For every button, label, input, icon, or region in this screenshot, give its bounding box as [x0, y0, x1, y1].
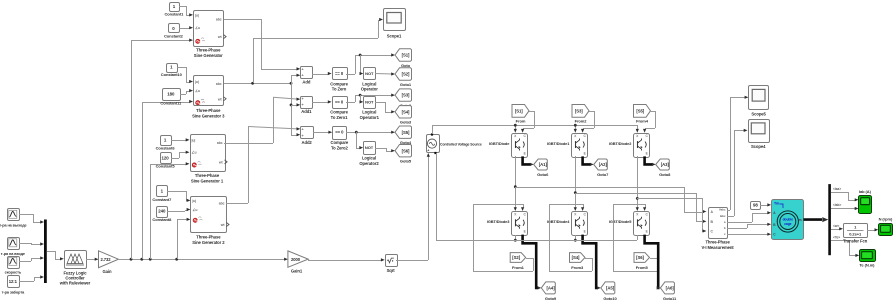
green scope Te — [860, 250, 876, 262]
svg-text:<isa>: <isa> — [833, 187, 841, 191]
asynchronous machine double cage — [772, 200, 804, 240]
svg-text:[A2]: [A2] — [599, 162, 608, 167]
wire Constant5 to G1b — [171, 158, 179, 160]
svg-text:|u|: |u| — [192, 138, 196, 142]
svg-text:|u|: |u| — [192, 199, 196, 203]
svg-text:E: E — [646, 230, 648, 234]
svg-text:IGBT/Diode2: IGBT/Diode2 — [609, 141, 632, 146]
thick wire IGBT3 to goto A4 — [523, 235, 539, 288]
wire from tag to IGBT1 gate — [589, 111, 594, 113]
svg-text:Operator2: Operator2 — [359, 161, 379, 166]
wire Constant1 to G1 — [179, 6, 186, 8]
mux Mux — [44, 220, 47, 284]
phase column vertical 3 — [637, 156, 639, 208]
svg-text:т-ра заборта: т-ра заборта — [2, 290, 25, 294]
wire DC rail stub to IGBT1 collector — [575, 125, 577, 130]
svg-text:т-ра на входе: т-ра на входе — [1, 252, 25, 256]
constant Constant6 — [161, 136, 172, 146]
svg-text:Constant10: Constant10 — [161, 72, 183, 77]
three-phase VI measurement block — [709, 208, 728, 239]
scope Scope5 — [749, 86, 769, 110]
svg-text:[A4]: [A4] — [547, 286, 556, 291]
svg-text:∠u: ∠u — [195, 26, 200, 30]
svg-text:Gain1: Gain1 — [291, 269, 303, 274]
svg-text:Sine Generator: Sine Generator — [194, 53, 223, 58]
from tag S1 — [512, 105, 529, 118]
bus out isa wire — [831, 192, 848, 194]
transfer fcn block — [844, 224, 868, 238]
svg-text:Three-Phase: Three-Phase — [195, 173, 220, 178]
svg-text:Te (N.m): Te (N.m) — [859, 263, 875, 268]
goto tag S4 — [395, 106, 412, 118]
goto tag A6 — [660, 282, 674, 294]
svg-text:Scope4: Scope4 — [751, 144, 766, 149]
wire Constant2 to G1 — [179, 28, 186, 30]
wire carrier vertical to adders — [291, 75, 293, 135]
goto tag S1 — [395, 49, 412, 61]
compare to zero CTZ2 — [333, 127, 347, 140]
svg-text:[S1]: [S1] — [515, 108, 523, 113]
svg-text:[S2]: [S2] — [512, 255, 520, 260]
svg-text:[A6]: [A6] — [666, 286, 675, 291]
wire scope tap to Scope1 — [253, 38, 255, 83]
wire freq to sine generator — [131, 40, 133, 259]
svg-text:Transfer Fcn: Transfer Fcn — [843, 238, 868, 243]
source block т-ра на выходе — [8, 209, 20, 221]
wire src4 to mux — [19, 281, 34, 283]
svg-text:abc: abc — [219, 201, 225, 205]
constant Constant5 — [161, 153, 172, 164]
three-phase sine generator G1 — [194, 11, 224, 47]
wire VI c to machine C — [727, 234, 740, 236]
from tag S6 — [634, 253, 650, 263]
svg-text:From5: From5 — [636, 265, 649, 270]
svg-text:<isb>: <isb> — [833, 203, 841, 207]
svg-text:скорость: скорость — [5, 271, 22, 275]
svg-text:Three-Phase: Three-Phase — [705, 240, 730, 245]
wire DC rail stub to IGBT2 collector — [637, 125, 639, 130]
svg-text:Constant11: Constant11 — [160, 100, 182, 105]
from tag S5 — [634, 105, 651, 118]
wire Tm to machine — [760, 205, 769, 207]
svg-text:2.732: 2.732 — [100, 257, 111, 262]
from tag S3 — [572, 105, 589, 118]
gate loop wire From to IGBT3 — [526, 258, 533, 260]
thick wire machine m to bus selector — [803, 218, 822, 221]
constant Constant7 — [157, 186, 168, 197]
logical operator NOT1 — [364, 97, 376, 109]
svg-text:IGBT/Diode3: IGBT/Diode3 — [487, 219, 510, 224]
goto tag A1 — [534, 159, 548, 170]
junction freq branch 4 — [175, 258, 178, 261]
sqrt block Sqrt — [386, 255, 398, 267]
from tag S4 — [570, 253, 586, 263]
scope Scope4 — [749, 120, 770, 143]
wire G2 abc to Add2 in1 — [226, 203, 248, 205]
three-phase sine generator G1b — [191, 135, 226, 172]
svg-text:Compare: Compare — [330, 110, 348, 115]
wire IGBT4 emitter to DC minus rail — [575, 235, 577, 240]
svg-text:NOT: NOT — [365, 99, 374, 104]
svg-text:Controlled Voltage Source: Controlled Voltage Source — [440, 143, 482, 147]
svg-text:abc: abc — [217, 141, 223, 145]
svg-text:To Zero1: To Zero1 — [331, 115, 348, 120]
svg-text:NOT: NOT — [365, 145, 374, 150]
bus out Te wire — [831, 240, 849, 242]
svg-text:[A5]: [A5] — [606, 286, 615, 291]
svg-text:Three-Phase: Three-Phase — [196, 108, 221, 113]
wire VI b to machine B — [727, 228, 747, 230]
svg-text:IGBT/Diode1: IGBT/Diode1 — [547, 141, 570, 146]
bus selector — [828, 184, 831, 255]
junction freq branch 2 — [140, 258, 143, 261]
igbt block IGBT/Diode3 — [512, 212, 528, 236]
svg-text:Sine Generator 2: Sine Generator 2 — [192, 240, 225, 245]
svg-text:240: 240 — [158, 209, 166, 214]
svg-text:Add2: Add2 — [302, 140, 313, 145]
svg-text:|u|: |u| — [195, 13, 199, 17]
svg-text:From2: From2 — [575, 118, 588, 123]
constant Tm 98 — [751, 202, 761, 210]
svg-text:[S3]: [S3] — [575, 108, 583, 113]
wire Gain1 to Sqrt — [308, 259, 310, 260]
svg-text:N (rpm): N (rpm) — [879, 217, 893, 222]
svg-text:Goto: Goto — [401, 63, 411, 68]
wire Add2 to CTZ2 — [313, 132, 330, 134]
svg-text:[A1]: [A1] — [539, 162, 548, 167]
compare to zero CTZ — [333, 68, 348, 80]
goto tag S5 — [395, 126, 412, 138]
svg-text:Sine Generator 3: Sine Generator 3 — [192, 114, 225, 119]
wire src3 to mux — [19, 261, 31, 263]
svg-text:Sqrt: Sqrt — [387, 268, 396, 273]
three-phase sine generator G3 — [194, 76, 224, 106]
wire Constant7 to G2 — [167, 191, 186, 193]
svg-text:Goto10: Goto10 — [603, 296, 617, 301]
svg-text:with Ruleviewer: with Ruleviewer — [59, 281, 91, 286]
svg-text:Constant6: Constant6 — [156, 146, 176, 151]
svg-text:Operator1: Operator1 — [360, 115, 380, 120]
constant Constant2 — [169, 24, 180, 33]
svg-text:From1: From1 — [512, 265, 525, 270]
wire CTZ out split row1 — [346, 74, 355, 76]
gain Gain 2.732 — [99, 251, 119, 268]
igbt block IGBT/Diode — [512, 134, 528, 158]
svg-text:|u|: |u| — [195, 80, 199, 84]
gate loop wire From to IGBT4 — [585, 258, 592, 260]
junction carrier vertical — [290, 82, 293, 85]
svg-text:Scope1: Scope1 — [387, 33, 402, 38]
svg-text:Constant2: Constant2 — [164, 33, 184, 38]
svg-text:Goto6: Goto6 — [537, 172, 549, 177]
svg-text:Logical: Logical — [362, 110, 376, 115]
from tag S2 — [510, 253, 526, 263]
wire from tag to IGBT gate — [529, 111, 534, 113]
svg-text:Constant1: Constant1 — [164, 12, 184, 17]
wire transfer fcn to N display — [867, 230, 876, 232]
wire NOT1 to S4 — [375, 102, 385, 104]
wire src1 to mux — [19, 214, 33, 216]
phase column vertical 2 — [575, 156, 577, 208]
svg-text:∠u: ∠u — [192, 151, 197, 155]
svg-text:Add1: Add1 — [301, 109, 312, 114]
gate loop wire From to IGBT5 — [650, 258, 657, 260]
junction carrier to Add1 in2 — [290, 104, 293, 107]
svg-text:Goto11: Goto11 — [663, 296, 677, 301]
wire IGBT5 emitter to DC minus rail — [637, 235, 639, 240]
constant Constant8 — [157, 207, 168, 218]
svg-text:NOT: NOT — [365, 71, 374, 76]
wire Constant10 to G3 — [177, 67, 186, 69]
svg-text:Goto3: Goto3 — [400, 120, 412, 125]
constant Constant11 — [163, 89, 181, 101]
wire CVS minus down — [436, 153, 438, 240]
svg-text:IGBT/Diode5: IGBT/Diode5 — [609, 219, 632, 224]
wire VI a to machine A — [727, 222, 752, 224]
goto tag A2 — [594, 159, 608, 170]
svg-text:Gain: Gain — [103, 269, 113, 274]
wire mux to fuzzy controller — [47, 251, 55, 253]
wire fuzzy to gain — [86, 259, 96, 261]
wire from tag to IGBT2 gate — [650, 111, 655, 113]
bus out isb wire — [831, 208, 846, 210]
constant 12:1 — [8, 276, 20, 288]
gain Gain1 2000 — [288, 251, 308, 267]
svg-text:E: E — [584, 230, 586, 234]
three-phase sine generator G2 — [191, 197, 227, 233]
svg-text:Add: Add — [302, 79, 310, 84]
svg-text:∠u: ∠u — [192, 208, 197, 212]
wire Constant6 to G1b — [171, 140, 187, 142]
svg-text:[S1]: [S1] — [402, 53, 410, 58]
svg-text:<Te>: <Te> — [833, 236, 840, 240]
wire gain rail to gain1 — [118, 259, 285, 261]
svg-text:Tm: Tm — [774, 202, 779, 206]
svg-text:[S6]: [S6] — [402, 148, 410, 153]
svg-text:[S4]: [S4] — [402, 109, 410, 114]
svg-text:Goto8: Goto8 — [659, 172, 671, 177]
goto tag A3 — [656, 159, 670, 170]
wire G1 abc to Add in1 — [224, 19, 261, 21]
svg-text:V-I Measurement: V-I Measurement — [702, 245, 735, 250]
fuzzy logic controller with ruleviewer U1 — [65, 251, 87, 269]
svg-text:Constant5: Constant5 — [156, 164, 176, 169]
wire G3 abc carrier line — [224, 83, 291, 85]
logical operator NOT — [364, 68, 376, 80]
junction freq branch 1 — [130, 258, 133, 261]
add block Add — [301, 67, 313, 79]
wire IGBT3 emitter to DC minus rail — [515, 235, 517, 240]
svg-text:cage: cage — [784, 222, 791, 226]
svg-text:[S4]: [S4] — [572, 255, 580, 260]
wire Vabc to Scope5 — [727, 210, 730, 212]
wire NOT to S2 — [375, 73, 392, 76]
svg-text:Operator: Operator — [361, 87, 378, 92]
wire CTZ2 out split row3 — [346, 132, 392, 134]
phase A wire to VI measurement — [515, 187, 684, 189]
svg-text:Goto5: Goto5 — [400, 159, 412, 164]
logical operator NOT2 — [364, 142, 376, 155]
svg-text:[S5]: [S5] — [636, 108, 644, 113]
svg-text:120: 120 — [162, 155, 170, 160]
igbt block IGBT/Diode4 — [572, 212, 588, 236]
wire Add to CTZ — [312, 74, 329, 76]
thick wire IGBT5 to goto A6 — [645, 235, 659, 288]
goto tag S6 — [395, 145, 412, 157]
svg-text:Goto7: Goto7 — [597, 172, 609, 177]
svg-text:Logical: Logical — [362, 155, 376, 160]
svg-text:Iab (A): Iab (A) — [859, 189, 872, 194]
controlled voltage source CVS — [427, 135, 440, 153]
svg-text:m: m — [799, 218, 802, 222]
thick phase wire IGBT to goto A1 — [523, 156, 531, 164]
wire Iabc to Scope4 — [727, 216, 734, 218]
svg-text:[S3]: [S3] — [402, 93, 410, 98]
svg-text:E: E — [646, 151, 648, 155]
goto tag S2 — [395, 68, 412, 80]
wire CTZ1 out split row2 — [346, 102, 355, 104]
svg-text:98: 98 — [753, 203, 758, 208]
svg-text:Scope5: Scope5 — [751, 111, 766, 116]
svg-text:[S5]: [S5] — [402, 130, 410, 135]
svg-text:2000: 2000 — [291, 257, 301, 262]
svg-text:[S6]: [S6] — [636, 255, 644, 260]
wire Constant11 to G3 — [180, 94, 186, 96]
wire freq to sine generator 2 — [177, 219, 179, 259]
svg-text:Goto1: Goto1 — [400, 82, 412, 87]
svg-text:b: b — [724, 226, 726, 230]
wire NOT2 to S6 — [375, 148, 386, 150]
svg-text:Compare: Compare — [331, 140, 349, 145]
phase C wire to VI measurement — [637, 198, 702, 200]
junction freq branch 3 — [149, 258, 152, 261]
svg-text:E: E — [524, 230, 526, 234]
wire carrier to Add2 in2 — [291, 135, 298, 137]
source block скорость — [8, 257, 20, 269]
svg-text:т-ра на выходе: т-ра на выходе — [0, 224, 27, 228]
svg-text:E: E — [524, 151, 526, 155]
constant Constant1 — [170, 3, 180, 12]
svg-text:From3: From3 — [571, 265, 584, 270]
svg-text:+: + — [427, 149, 429, 153]
svg-text:Three-Phase: Three-Phase — [196, 235, 221, 240]
wire freq to sine generator 3 — [142, 102, 144, 259]
goto tag S3 — [395, 89, 412, 101]
svg-text:E: E — [584, 151, 586, 155]
svg-text:== 0: == 0 — [335, 99, 344, 104]
svg-text:Goto9: Goto9 — [545, 296, 557, 301]
svg-text:abc: abc — [216, 18, 222, 22]
svg-text:Three-Phase: Three-Phase — [196, 48, 221, 53]
goto tag A4 — [541, 282, 555, 294]
svg-text:From: From — [516, 118, 526, 123]
bus out w wire — [831, 229, 840, 231]
thick phase wire IGBT2 to goto A3 — [645, 156, 653, 164]
phase column vertical 1 — [515, 156, 517, 208]
svg-text:<w>: <w> — [833, 224, 839, 228]
wire Add1 to CTZ1 — [312, 102, 329, 104]
igbt block IGBT/Diode2 — [634, 134, 650, 158]
svg-text:To Zero2: To Zero2 — [331, 145, 348, 150]
goto tag A5 — [601, 282, 615, 294]
wire src2 to mux — [19, 243, 31, 245]
igbt block IGBT/Diode5 — [634, 212, 650, 236]
wire CVS plus to DC rail — [432, 125, 434, 134]
thick wire IGBT4 to goto A5 — [583, 235, 598, 288]
svg-text:12:1: 12:1 — [9, 279, 18, 284]
svg-text:180: 180 — [167, 92, 175, 97]
add block Add2 — [301, 127, 314, 139]
svg-text:Compare: Compare — [330, 81, 348, 86]
svg-text:Sine Generator 1: Sine Generator 1 — [191, 179, 224, 184]
svg-text:Vabc: Vabc — [719, 208, 726, 212]
compare to zero CTZ1 — [333, 97, 348, 109]
thick phase wire IGBT1 to goto A2 — [583, 156, 591, 164]
svg-text:[A3]: [A3] — [661, 162, 670, 167]
svg-text:== 0: == 0 — [335, 130, 344, 135]
svg-text:To Zero: To Zero — [332, 87, 347, 92]
DC minus rail — [436, 240, 637, 242]
svg-text:0.2s+1: 0.2s+1 — [849, 232, 862, 237]
svg-text:IGBT/Diode4: IGBT/Diode4 — [547, 219, 570, 224]
junction carrier scope tap — [251, 82, 254, 85]
scope Scope1 — [384, 9, 406, 31]
phase B wire to VI measurement — [575, 193, 696, 195]
wire DC rail stub to IGBT collector — [515, 125, 517, 130]
igbt block IGBT/Diode1 — [572, 134, 588, 158]
svg-text:Logical: Logical — [362, 81, 376, 86]
svg-text:Constant8: Constant8 — [152, 217, 172, 222]
svg-text:== 0: == 0 — [335, 71, 344, 76]
wire freq to sine generator 1 — [150, 164, 152, 259]
wire Sqrt to controlled voltage source — [396, 260, 428, 262]
svg-text:[S2]: [S2] — [402, 72, 410, 77]
constant Constant10 — [167, 64, 178, 73]
svg-text:Constant7: Constant7 — [152, 197, 172, 202]
svg-text:∠u: ∠u — [195, 89, 200, 93]
svg-text:IGBT/Diode: IGBT/Diode — [489, 141, 510, 146]
svg-text:abc: abc — [216, 82, 222, 86]
source block т-ра на входе — [8, 238, 20, 250]
svg-text:From4: From4 — [636, 118, 649, 123]
wire G1b abc to Add1 in1 — [224, 143, 273, 145]
wire Constant8 to G2 — [167, 211, 185, 213]
add block Add1 — [301, 97, 313, 109]
svg-text:Iabc: Iabc — [720, 214, 726, 218]
